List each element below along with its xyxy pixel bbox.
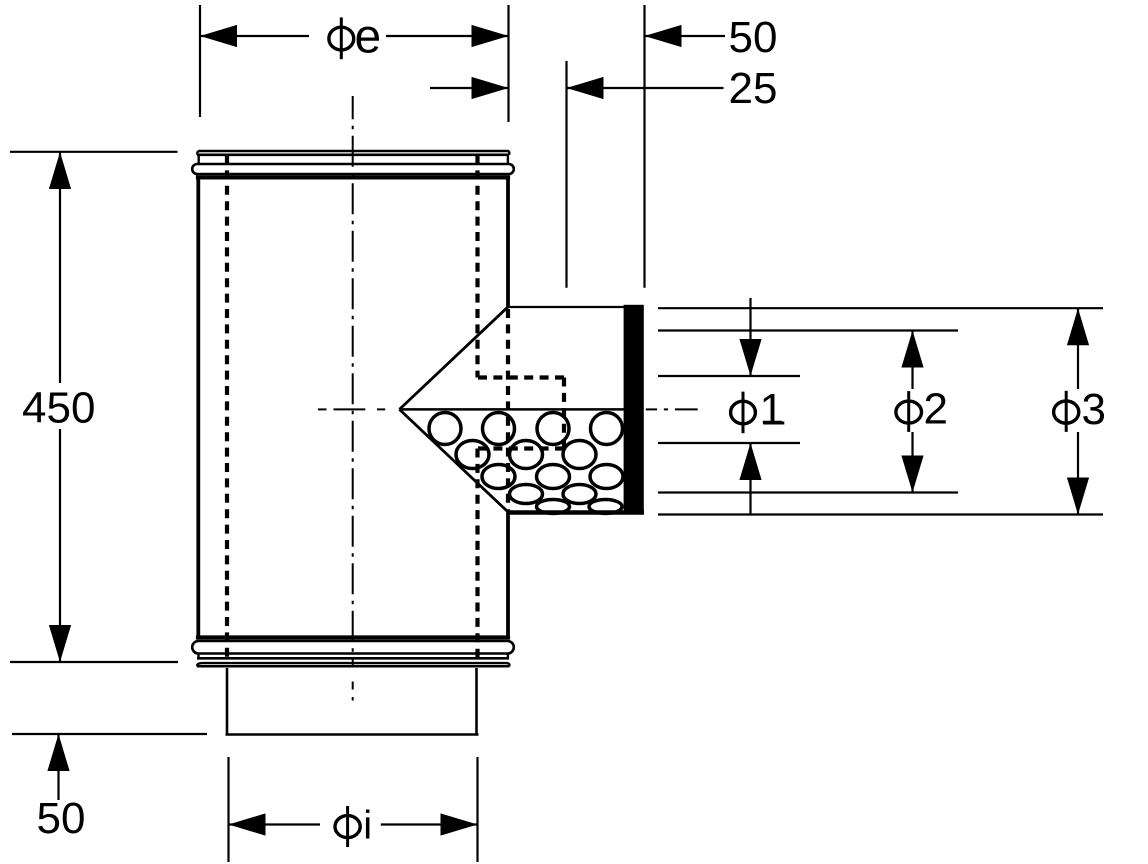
extension line 50 top (643, 5, 645, 288)
label phi-e (329, 11, 381, 64)
branch cone bottom diagonal (399, 409, 508, 512)
hidden inner liner wall right upper (dashed) (475, 155, 479, 378)
perforation row A (429, 413, 623, 445)
dimension phi1 arrow down (739, 339, 761, 376)
bottom liner wall right (475, 668, 478, 734)
dimension 450 arrow up (49, 152, 71, 189)
svg-text:3: 3 (1082, 385, 1106, 434)
branch end cap black bar (624, 305, 644, 515)
perforation row C (482, 465, 623, 489)
perforation row D (510, 485, 597, 504)
horizontal centerline left of branch apex (318, 408, 385, 410)
bottom band connector right (507, 654, 509, 659)
top band rolled lip line 2 (197, 154, 509, 157)
bottom band thick pipe edge (196, 635, 510, 639)
extension line phi2 top (658, 329, 958, 331)
dimension phi-i line (229, 823, 321, 825)
dimension phi-i arrow right (441, 813, 478, 835)
top band lip connector right (507, 155, 509, 164)
dimension phi-e arrow right (472, 25, 509, 47)
dimension 25 arrow pointing right (472, 77, 509, 99)
dimension 450 arrow down (49, 625, 71, 662)
label phi2 (896, 385, 948, 434)
extension line phi2 bottom (658, 491, 958, 493)
vertical centerline tail below bottom band (352, 682, 354, 690)
dimension phi3 arrow up (1067, 308, 1089, 345)
branch top edge (508, 306, 625, 308)
label phi3 (1054, 385, 1106, 434)
dimension phi-e arrow left (200, 25, 237, 47)
hidden inner liner wall left (dashed) (225, 155, 229, 663)
top band lip left bend (197, 151, 199, 155)
svg-text:450: 450 (22, 383, 95, 432)
dimension phi1 line (749, 298, 751, 376)
bottom band lip right bend (507, 663, 510, 666)
horizontal centerline right of branch bar (646, 408, 698, 410)
top band rolled lip line 1 (199, 150, 509, 153)
extension line 50 bottom (12, 733, 207, 735)
dimension phi3 line (1077, 308, 1079, 389)
top band lip connector left (197, 155, 199, 164)
dimension 50 bottom line (57, 734, 59, 800)
hidden branch inner tube end (dashed) (562, 378, 566, 449)
dimension 50 top arrow (645, 25, 682, 47)
extension line 450 bottom (10, 661, 178, 663)
svg-text:25: 25 (729, 64, 778, 113)
extension line phi1 top (658, 375, 800, 377)
top band lip right bend (508, 151, 510, 155)
branch section water line (399, 408, 624, 411)
top band thick pipe edge (196, 175, 510, 179)
main pipe outer wall right (below branch) (506, 513, 510, 638)
bottom band lip left bend (197, 663, 202, 666)
extension line phi-e left (199, 5, 201, 117)
dimension phi-i arrow left (229, 813, 266, 835)
main pipe outer wall right (above branch) (506, 179, 510, 307)
dimension 25 tail left (430, 87, 509, 89)
bottom band line 3 (197, 665, 510, 668)
extension line phi1 bottom (658, 442, 800, 444)
bottom band connector left (197, 654, 199, 659)
dimension 50 bottom arrow up (47, 734, 69, 771)
svg-text:50: 50 (37, 794, 86, 843)
extension line phi3 top (658, 307, 1103, 309)
extension line phi-i left (227, 757, 229, 862)
bottom band line 1 (197, 657, 509, 660)
extension line phi-e right (507, 5, 509, 122)
bottom band line 2 (202, 662, 508, 664)
extension line phi3 bottom (658, 513, 1103, 515)
perforation row B (456, 441, 596, 469)
dimension 25 line right (567, 87, 724, 89)
dimension phi2 arrow up (901, 331, 923, 368)
dimension 450 line (59, 152, 61, 383)
dimension 50 top line (645, 35, 726, 37)
dimension 25 arrow pointing left (567, 77, 604, 99)
bottom band crimp capsule (192, 641, 514, 654)
svg-text:1: 1 (760, 385, 784, 434)
hidden branch inner tube top (dashed) (478, 375, 564, 379)
top band crimp capsule (192, 164, 514, 174)
bottom liner wall left (226, 668, 229, 734)
svg-text:50: 50 (729, 13, 778, 62)
branch bottom edge (thick) (508, 510, 645, 515)
main pipe outer wall left (196, 179, 200, 637)
label phi1 (731, 385, 785, 434)
extension line 450 top (10, 151, 178, 153)
dimension phi-e line (200, 35, 309, 37)
extension line phi-i right (476, 757, 478, 862)
dimension phi2 arrow down (901, 456, 923, 493)
vertical centerline of main pipe (352, 96, 354, 667)
hidden outer wall behind branch (dashed) (506, 309, 510, 511)
bottom liner bottom edge (226, 733, 479, 736)
dimension phi3 arrow down (1067, 478, 1089, 515)
perforation row E (537, 500, 623, 514)
label phi-i (335, 804, 372, 848)
hidden inner liner wall right lower (dashed) (475, 449, 479, 664)
svg-text:2: 2 (924, 385, 948, 434)
svg-text:e: e (355, 11, 382, 64)
hidden branch inner tube bottom (dashed) (478, 446, 564, 450)
branch cone top diagonal (399, 306, 508, 409)
dimension phi1 arrow up (739, 443, 761, 480)
extension line 25 (565, 61, 567, 288)
svg-text:i: i (363, 804, 372, 848)
dimension phi2 line (911, 331, 913, 390)
